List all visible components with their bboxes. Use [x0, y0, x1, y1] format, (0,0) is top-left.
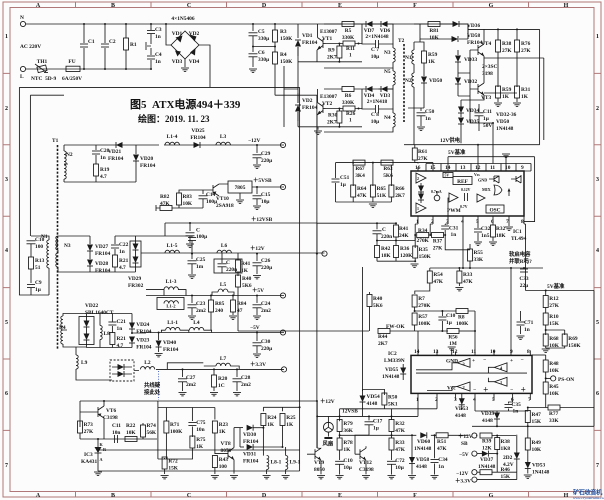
svg-text:47K: 47K [463, 279, 473, 285]
svg-text:100K: 100K [418, 321, 431, 327]
diode VD4b [362, 86, 378, 92]
svg-text:−: − [521, 358, 524, 364]
diode VD23 FR104 [129, 337, 152, 351]
svg-text:15K: 15K [501, 474, 511, 480]
svg-text:VD50: VD50 [496, 119, 509, 125]
svg-text:FR302: FR302 [128, 283, 144, 289]
svg-text:D: D [262, 493, 267, 499]
svg-text:R71: R71 [170, 422, 180, 428]
svg-text:7805: 7805 [235, 185, 246, 191]
internal wires [416, 363, 527, 391]
inductor L4 [189, 320, 211, 333]
LM339 internals [416, 358, 527, 394]
fan symbol [323, 422, 334, 447]
svg-text:R24: R24 [267, 415, 277, 421]
capacitor C29 [253, 144, 273, 168]
pin stubs LM339 [418, 331, 530, 355]
svg-text:＋3.3V: ＋3.3V [455, 478, 471, 485]
resistor R59b 1K [494, 86, 512, 106]
svg-text:R57: R57 [418, 314, 428, 320]
svg-text:T2: T2 [398, 38, 405, 44]
resistor R5 [324, 22, 362, 42]
transformer T2 core [398, 38, 405, 122]
svg-text:G: G [489, 3, 494, 9]
svg-text:2: 2 [417, 176, 419, 181]
resistor R12 27K [543, 290, 559, 314]
wire +12VSB corner [316, 223, 318, 253]
svg-text:VD22: VD22 [85, 303, 98, 309]
svg-text:A: A [100, 457, 103, 462]
svg-text:H: H [564, 3, 569, 9]
IC internals: 5V box [443, 173, 453, 178]
svg-text:N5: N5 [384, 69, 391, 75]
svg-text:R31: R31 [521, 87, 531, 93]
svg-text:1K: 1K [428, 59, 436, 65]
svg-text:1n: 1n [155, 34, 161, 40]
svg-text:R79: R79 [343, 421, 353, 427]
inductor L1-4 [165, 134, 179, 145]
svg-text:1μ: 1μ [340, 182, 346, 188]
resistor R32b 47K [389, 409, 406, 436]
ground R68 [542, 349, 550, 352]
svg-text:5: 5 [476, 219, 479, 225]
svg-text:15K: 15K [532, 419, 542, 425]
svg-text:共线疑: 共线疑 [144, 381, 161, 389]
svg-text:1K: 1K [286, 422, 294, 428]
svg-text:C: C [187, 493, 191, 499]
svg-text:R33: R33 [395, 440, 405, 446]
transistor VT10 2SA918 [208, 184, 234, 209]
svg-text:C1: C1 [88, 39, 95, 45]
resistor R57 100K [412, 310, 431, 331]
inductor L1-5 [165, 243, 179, 253]
svg-text:图5 ATX电源494＋339: 图5 ATX电源494＋339 [130, 97, 241, 111]
svg-text:R9: R9 [328, 48, 335, 54]
svg-text:FR104: FR104 [302, 40, 318, 46]
resistor R44 2K7 [378, 329, 448, 348]
svg-text:2K7: 2K7 [327, 120, 337, 126]
svg-text:R49: R49 [532, 440, 542, 446]
svg-text:R4: R4 [280, 52, 287, 58]
svg-text:R81: R81 [429, 28, 439, 34]
wire bridge right [151, 45, 275, 95]
svg-text:L8-1: L8-1 [271, 460, 282, 466]
svg-text:F: F [413, 3, 417, 9]
svg-text:FR104: FR104 [243, 459, 259, 465]
capacitor C17 [328, 400, 418, 435]
svg-text:C34: C34 [438, 457, 448, 463]
svg-text:12: 12 [452, 349, 458, 355]
svg-text:22μ: 22μ [520, 283, 528, 289]
svg-text:R68: R68 [549, 336, 559, 342]
terminal N [20, 21, 25, 26]
svg-text:VD30: VD30 [243, 432, 256, 438]
inductor L1-1 [161, 320, 188, 333]
svg-text:C6: C6 [258, 50, 265, 56]
ground VT12 [362, 476, 370, 479]
svg-text:E: E [338, 493, 342, 499]
resistor R30 [326, 108, 344, 127]
capacitor C71 [517, 311, 534, 339]
resistor R74 56K [141, 423, 157, 439]
diode VD3b [364, 86, 394, 105]
svg-text:N2: N2 [405, 78, 412, 84]
label VD32-36 [496, 112, 517, 132]
winding L8-1 [263, 456, 282, 479]
svg-text:R23: R23 [219, 422, 229, 428]
resistor R79 36K [337, 415, 354, 435]
capacitor C 220n2 [373, 222, 393, 240]
svg-text:47K: 47K [433, 279, 443, 285]
capacitor C23 [188, 295, 207, 320]
svg-text:C: C [187, 3, 191, 9]
diode VD58 [420, 24, 540, 145]
svg-text:C: C [196, 228, 200, 234]
resistor R77 33K [528, 405, 594, 424]
svg-text:FR104: FR104 [136, 329, 152, 335]
box L1-2 [157, 298, 184, 310]
svg-text:220n: 220n [381, 234, 392, 240]
svg-text:C32: C32 [481, 226, 491, 232]
svg-text:T1: T1 [52, 138, 59, 144]
bridge rectifier VD1-VD4 [171, 31, 200, 65]
svg-text:10K: 10K [532, 447, 542, 453]
svg-text:14: 14 [414, 349, 420, 355]
svg-text:0.7mA: 0.7mA [431, 190, 442, 194]
svg-text:VD36: VD36 [467, 23, 480, 29]
wire L7 upper path [167, 363, 203, 370]
wire top right to LM339 [532, 354, 546, 356]
svg-text:N1: N1 [41, 234, 48, 240]
svg-text:C29: C29 [261, 151, 271, 157]
junction [510, 267, 512, 269]
svg-text:PS-ON: PS-ON [558, 377, 574, 383]
svg-text:L3: L3 [220, 134, 227, 140]
svg-text:L1-1: L1-1 [167, 320, 178, 326]
svg-text:−12V: −12V [456, 471, 468, 477]
watermark box [573, 489, 604, 500]
diode VD2 [190, 35, 197, 42]
svg-text:C2: C2 [109, 39, 116, 45]
svg-text:VD32: VD32 [464, 79, 477, 85]
svg-text:VD29: VD29 [128, 276, 141, 282]
svg-text:C: C [382, 227, 386, 233]
svg-text:10K: 10K [183, 201, 193, 207]
terminal L [20, 66, 25, 71]
svg-text:R22: R22 [126, 423, 136, 429]
svg-text:FR104: FR104 [108, 156, 124, 162]
diode VD33 [455, 50, 477, 73]
resistor R22 10K [125, 423, 137, 442]
svg-text:VD23: VD23 [136, 338, 149, 344]
svg-text:VT10: VT10 [216, 196, 229, 202]
diode VD30 FR104 [234, 425, 264, 445]
svg-text:F: F [413, 493, 417, 499]
IC internals: OSC box [486, 205, 504, 214]
svg-text:330K: 330K [342, 100, 355, 106]
svg-text:H: H [564, 493, 569, 499]
svg-text:5: 5 [5, 320, 8, 326]
svg-text:L4: L4 [193, 320, 200, 326]
svg-text:150K: 150K [280, 36, 293, 42]
diode VD25 FR104 [190, 128, 206, 148]
resistor R34 270K [417, 228, 430, 244]
resistor R20 1C [210, 368, 228, 396]
svg-text:5K6: 5K6 [242, 283, 252, 289]
wire R42 R36 R35 bottoms [377, 260, 415, 262]
svg-text:L9: L9 [81, 360, 88, 366]
dual diode VD22 box [79, 314, 94, 348]
comparator 3 [457, 358, 470, 367]
IC internals: Vss GND [474, 173, 487, 183]
diode VD35 [458, 113, 479, 125]
svg-text:9: 9 [521, 165, 524, 171]
svg-text:VD1: VD1 [172, 31, 183, 37]
svg-text:R37: R37 [433, 239, 443, 245]
svg-text:KA431: KA431 [81, 459, 97, 465]
svg-text:4: 4 [461, 219, 464, 225]
IC internals: OR gate [494, 185, 502, 195]
terminal +5V [280, 293, 285, 298]
IC internals: 0.7mA source [431, 190, 442, 201]
wire bridge top to rail [166, 24, 171, 45]
svg-text:C21: C21 [117, 319, 127, 325]
pin numbers top [415, 165, 524, 171]
svg-text:47K: 47K [357, 193, 367, 199]
svg-text:1n: 1n [513, 409, 519, 415]
svg-text:VD58: VD58 [467, 33, 480, 39]
terminal PS-ON [545, 376, 575, 383]
resistor R19 [94, 164, 110, 182]
svg-text:1μ: 1μ [446, 320, 452, 326]
svg-text:N4: N4 [384, 115, 391, 121]
svg-text:C28: C28 [241, 375, 251, 381]
winding N2 primary [64, 145, 73, 182]
svg-text:N: N [20, 15, 24, 21]
svg-text:FR104: FR104 [95, 268, 111, 274]
svg-text:5: 5 [596, 320, 599, 326]
svg-text:FR104: FR104 [302, 105, 318, 111]
svg-text:＋12V: ＋12V [458, 433, 473, 440]
svg-text:4148: 4148 [416, 464, 427, 470]
svg-text:1n: 1n [524, 327, 530, 333]
svg-text:2m2: 2m2 [261, 308, 271, 314]
svg-text:47K: 47K [437, 446, 447, 452]
svg-text:2K7: 2K7 [378, 341, 388, 347]
svg-text:C26: C26 [261, 258, 271, 264]
inductor L3 [216, 134, 230, 145]
svg-text:2m2: 2m2 [241, 382, 251, 388]
terminal +3.3V [455, 472, 517, 484]
svg-text:B: B [111, 3, 115, 9]
wire primary loop [64, 145, 151, 182]
svg-text:270K: 270K [418, 303, 431, 309]
svg-text:1n: 1n [451, 232, 457, 238]
svg-text:C9: C9 [35, 280, 42, 286]
svg-text:1K: 1K [241, 268, 249, 274]
svg-text:N2: N2 [66, 152, 73, 158]
svg-text:330K: 330K [342, 35, 355, 41]
diode VD24 FR104 [129, 314, 152, 336]
svg-text:4.7: 4.7 [100, 174, 107, 180]
svg-text:VT4: VT4 [481, 41, 491, 47]
winding N1 sense [31, 234, 49, 295]
plus12V rail [146, 252, 325, 254]
svg-text:接此处: 接此处 [144, 388, 161, 396]
wire top row [472, 425, 594, 427]
svg-text:4: 4 [596, 248, 599, 254]
svg-text:C75: C75 [196, 420, 206, 426]
svg-text:10μ: 10μ [371, 119, 379, 125]
diode VD28 [87, 251, 111, 274]
svg-text:6A/250V: 6A/250V [62, 76, 82, 82]
wire R72 row [158, 458, 193, 460]
svg-text:8050: 8050 [221, 448, 232, 454]
svg-text:GND: GND [478, 178, 487, 183]
svg-text:R73: R73 [84, 422, 94, 428]
svg-text:R34: R34 [418, 228, 428, 234]
svg-text:100μ: 100μ [206, 199, 217, 205]
svg-text:R76: R76 [521, 41, 531, 47]
resistor R84 47 [229, 295, 247, 320]
winding L9-1 [282, 447, 301, 479]
svg-text:10n: 10n [112, 430, 120, 436]
svg-text:8050: 8050 [314, 467, 325, 473]
capacitor C35 1n [505, 400, 522, 415]
diode VD2 FR104 [295, 93, 318, 121]
capacitor C50 [417, 108, 435, 130]
svg-text:−12V: −12V [248, 138, 260, 144]
resistor R66 2K7 [389, 165, 405, 202]
resistor R41 24K [394, 222, 410, 240]
svg-text:1n: 1n [425, 116, 431, 122]
ground VT9 [317, 476, 325, 479]
capacitor C31 [441, 224, 458, 238]
svg-text:E13007: E13007 [320, 29, 337, 35]
wire 5V ref rail [448, 157, 535, 222]
svg-text:1: 1 [349, 118, 352, 124]
pin numbers bottom [416, 219, 524, 225]
svg-text:www.crystalradio.cn: www.crystalradio.cn [573, 496, 604, 500]
svg-text:R69: R69 [568, 336, 578, 342]
svg-text:R40: R40 [242, 276, 252, 282]
ground C6 [249, 69, 257, 72]
capacitor C21 [108, 314, 126, 334]
svg-text:N3: N3 [64, 243, 71, 249]
svg-text:5V: 5V [445, 174, 450, 178]
winding N2 [405, 70, 424, 108]
svg-text:R83: R83 [183, 194, 193, 200]
svg-text:VD55: VD55 [385, 367, 398, 373]
svg-text:4.7: 4.7 [117, 343, 124, 349]
svg-text:VD35: VD35 [466, 119, 479, 125]
svg-text:R42: R42 [381, 246, 391, 252]
svg-text:47K: 47K [160, 201, 170, 207]
capacitor C27 [178, 368, 196, 396]
svg-text:C72: C72 [395, 458, 405, 464]
IC internals: 0.12V cap [460, 188, 471, 209]
svg-text:R10: R10 [549, 314, 559, 320]
resistor R67 3K4 [353, 160, 365, 179]
svg-text:51K: 51K [377, 193, 387, 199]
resistor R54 47K [415, 268, 455, 294]
svg-text:＋5V: ＋5V [252, 287, 264, 294]
pin band top [426, 164, 531, 172]
svg-text:R36: R36 [400, 246, 410, 252]
svg-text:VD60: VD60 [417, 439, 430, 445]
svg-text:10K: 10K [549, 391, 559, 397]
IC3 KA431 [81, 438, 300, 475]
svg-text:13: 13 [460, 165, 466, 171]
terminal -12V [280, 142, 285, 147]
svg-text:100μ: 100μ [196, 234, 207, 240]
transistor VT6 C3198 [80, 400, 118, 439]
svg-text:330μ: 330μ [258, 57, 269, 63]
wire bridge bottom to ground [184, 59, 186, 67]
capacitor C7 [362, 24, 394, 60]
thermistor TH1 [31, 59, 56, 82]
wire pin3 to R55 [445, 235, 470, 250]
resistor R55 33K [468, 244, 484, 268]
svg-text:27K: 27K [549, 303, 559, 309]
IC internals: err amp 2 [416, 203, 426, 213]
svg-text:C4: C4 [155, 52, 162, 58]
svg-text:B: B [111, 493, 115, 499]
wire +12VSB to C220n R41 [317, 222, 396, 224]
svg-text:SBL1640CT: SBL1640CT [85, 310, 114, 316]
resistor R50 5K1 [382, 390, 398, 409]
svg-text:R25: R25 [286, 415, 296, 421]
resistor R73 27K [78, 421, 94, 439]
svg-text:R85: R85 [215, 301, 225, 307]
comparator 1 [494, 377, 507, 386]
box C220n R41 [214, 253, 251, 276]
svg-text:150K: 150K [568, 343, 581, 349]
svg-text:10μ: 10μ [343, 465, 351, 471]
svg-text:6: 6 [5, 391, 8, 397]
ground pin7 [505, 227, 513, 230]
svg-text:100K: 100K [456, 321, 469, 327]
resistor R45 10K [543, 378, 559, 407]
capacitor C32 [474, 224, 491, 245]
svg-text:R41: R41 [241, 261, 251, 267]
svg-text:10μ: 10μ [261, 199, 269, 205]
capacitor C26 [253, 253, 273, 279]
svg-text:2×1N4148: 2×1N4148 [365, 34, 388, 40]
svg-text:C50: C50 [425, 109, 435, 115]
diode VD54 4148 [360, 390, 380, 417]
svg-text:R38: R38 [501, 439, 511, 445]
svg-text:27K: 27K [84, 429, 94, 435]
svg-text:5K6: 5K6 [373, 303, 383, 309]
svg-text:R32: R32 [496, 226, 506, 232]
resistor R24 1K [261, 407, 277, 455]
wire R67 row to pin15 [336, 163, 434, 171]
svg-text:MIX: MIX [482, 187, 491, 192]
resistor R59a 1K [414, 39, 438, 145]
resistor R32 18K [489, 224, 506, 245]
svg-text:VD3: VD3 [172, 59, 183, 65]
resistor R48 10K [543, 355, 559, 378]
svg-text:220μ: 220μ [261, 265, 272, 271]
capacitor C33 [519, 268, 529, 289]
diode VD6 [364, 21, 394, 40]
svg-text:50V: 50V [483, 123, 492, 129]
svg-text:VD4: VD4 [189, 59, 200, 65]
wire VT3 emitter row [484, 93, 517, 100]
svg-text:33K: 33K [549, 418, 559, 424]
svg-text:C30: C30 [261, 339, 271, 345]
